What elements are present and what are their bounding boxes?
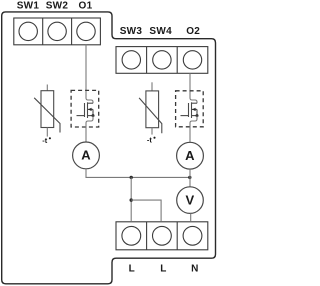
svg-text:V: V [185, 193, 194, 208]
svg-text:A: A [185, 148, 195, 163]
thermistor RT2 stub bottom [151, 128, 153, 135]
thermistor RT2 [139, 91, 162, 133]
svg-text:-t: -t [42, 136, 47, 145]
ammeter A2 [177, 142, 204, 169]
device outline [2, 12, 216, 284]
svg-text:SW4: SW4 [149, 26, 172, 37]
thermistor RT1 [34, 91, 60, 133]
MOSFET Q1 [77, 102, 94, 118]
wire Q1 source to A1 [86, 116, 93, 142]
terminal block X2 (SW3 SW4 O2) [116, 47, 208, 74]
dashed box U2 [176, 91, 204, 127]
svg-text:O1: O1 [79, 0, 93, 11]
wire bus to L1 [130, 177, 132, 221]
svg-text:A: A [81, 148, 91, 163]
wire O1 to Q1 drain [86, 45, 93, 103]
ammeter A1 [73, 142, 100, 169]
wire A2 to V [189, 169, 191, 187]
wire Q2 source to A2 [190, 116, 197, 143]
svg-text:-t: -t [147, 135, 152, 144]
wire V to N [190, 213, 192, 221]
thermistor RT2 stub top [151, 82, 153, 91]
thermistor RT1 stub top [46, 85, 48, 91]
svg-text:SW2: SW2 [46, 0, 69, 11]
svg-text:N: N [191, 264, 198, 275]
dashed box U1 [71, 90, 99, 127]
svg-text:SW1: SW1 [17, 0, 40, 11]
terminal block X3 (L L N) [116, 222, 208, 250]
wire A1 to bus [86, 169, 190, 178]
junction dot A2-V bus [188, 176, 191, 179]
svg-text:L: L [129, 264, 135, 275]
svg-text:SW3: SW3 [120, 26, 143, 37]
wire O2 to Q2 drain [190, 73, 197, 103]
svg-text:O2: O2 [186, 26, 200, 37]
terminal block X1 (SW1 SW2 O1) [14, 18, 101, 45]
voltmeter V1 [177, 187, 204, 214]
thermistor RT1 stub bottom [46, 128, 48, 137]
MOSFET Q2 [181, 102, 198, 118]
wire branch to L2 [131, 200, 161, 222]
svg-text:L: L [160, 264, 166, 275]
junction dot L bus [130, 176, 133, 179]
junction dot L1 branch [130, 198, 133, 201]
